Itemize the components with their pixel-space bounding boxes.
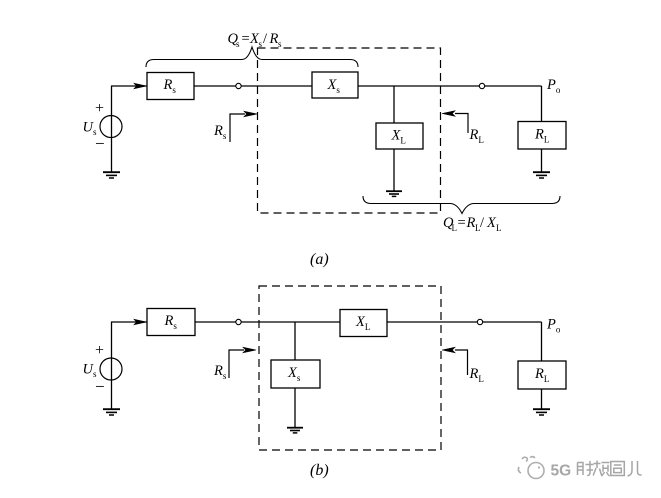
- reactance XL box (b): [340, 310, 387, 337]
- svg-text:L: L: [452, 223, 458, 233]
- resistor Rs box (b): [147, 309, 195, 336]
- svg-text:s: s: [259, 39, 263, 49]
- dashed box (a): [258, 48, 441, 213]
- brace top Qs (a): [146, 47, 358, 67]
- wire RL to ground (b): [541, 389, 543, 409]
- resistor Rs box (a): [147, 73, 194, 100]
- ground Xs (b): [287, 428, 303, 433]
- wire Rs to Xs and onward (a): [194, 85, 542, 87]
- wire RL to ground (a): [541, 149, 543, 172]
- ground source (a): [103, 172, 120, 178]
- svg-text:R: R: [269, 31, 279, 47]
- svg-text:=: =: [458, 215, 466, 231]
- resistor RL box (b): [518, 361, 566, 389]
- arrow RL looking left (b): [442, 347, 468, 375]
- watermark CJK glyph er: [628, 461, 642, 476]
- arrow into Rs (b): [134, 319, 147, 325]
- wire source to Rs (b): [111, 321, 147, 323]
- svg-text:L: L: [496, 223, 502, 233]
- arrow into Rs (a): [134, 83, 147, 89]
- wire branch XL (a): [393, 86, 395, 123]
- svg-text:s: s: [236, 39, 240, 49]
- svg-text:5G: 5G: [551, 463, 572, 480]
- wire source to Rs (a): [111, 85, 147, 87]
- wire down to RL (a): [541, 86, 543, 122]
- svg-text:+: +: [95, 100, 104, 117]
- svg-text:R: R: [466, 215, 476, 231]
- node circle right (a): [479, 83, 484, 88]
- arrow RL looking left (a): [442, 111, 468, 133]
- label Qs = Xs / Rs (a): [228, 31, 283, 49]
- watermark CJK glyph pin: [593, 461, 610, 477]
- wire source vertical (a): [111, 86, 113, 172]
- ground XL (a): [386, 191, 402, 196]
- node circle right (b): [477, 319, 482, 324]
- brace bottom QL (a): [363, 196, 560, 214]
- wire XL to ground (a): [393, 149, 395, 191]
- arrow Rs looking right (a): [230, 111, 257, 142]
- wire source vertical (b): [111, 322, 113, 409]
- watermark logo: [518, 457, 544, 479]
- source Us (a): [100, 116, 122, 138]
- wire XL to corner (b): [387, 321, 542, 323]
- arrow Rs looking right (b): [229, 347, 256, 378]
- svg-text:+: +: [95, 342, 104, 359]
- wire Rs to XL (b): [195, 321, 340, 323]
- wire Xs to ground (b): [294, 388, 296, 428]
- wire branch Xs (b): [294, 322, 296, 360]
- source Us (b): [100, 358, 122, 380]
- watermark CJK glyph she: [578, 461, 594, 476]
- reactance Xs box (b): [271, 360, 320, 388]
- svg-text:=: =: [242, 31, 250, 47]
- node circle left (b): [236, 319, 241, 324]
- ground RL (b): [533, 409, 550, 415]
- svg-text:s: s: [278, 39, 282, 49]
- watermark CJK glyph quan: [611, 462, 625, 476]
- reactance Xs box (a): [312, 72, 358, 98]
- dashed box (b): [259, 286, 441, 450]
- reactance XL box (a): [376, 123, 423, 149]
- label QL = RL / XL (a): [443, 215, 502, 233]
- resistor RL box (a): [518, 122, 566, 150]
- wire down to RL (b): [541, 322, 543, 361]
- ground source (b): [103, 409, 120, 415]
- node circle left (a): [236, 83, 241, 88]
- svg-text:(b): (b): [310, 462, 329, 479]
- svg-text:−: −: [95, 377, 105, 396]
- svg-text:(a): (a): [310, 251, 329, 268]
- ground RL (a): [533, 172, 550, 178]
